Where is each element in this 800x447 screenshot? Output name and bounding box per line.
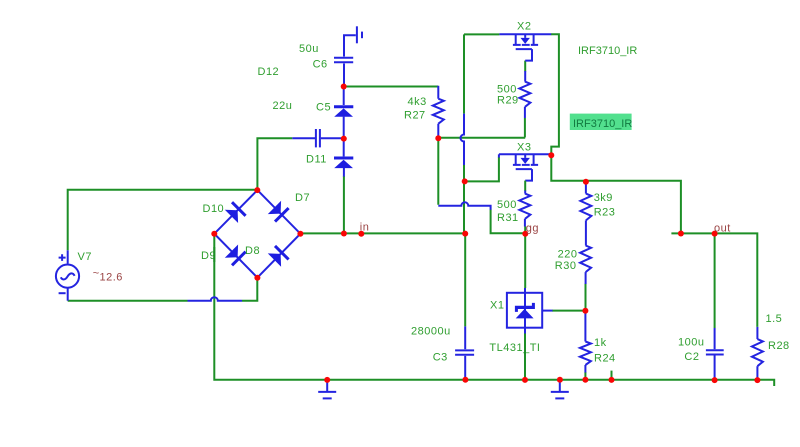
svg-text:D10: D10: [203, 203, 225, 215]
svg-text:12.6: 12.6: [100, 272, 123, 284]
svg-text:3k9: 3k9: [594, 192, 613, 204]
svg-text:D8: D8: [245, 245, 260, 257]
svg-text:X3: X3: [517, 142, 531, 154]
svg-text:out: out: [714, 222, 731, 234]
svg-text:4k3: 4k3: [408, 96, 427, 108]
svg-text:500: 500: [497, 199, 517, 211]
svg-text:R31: R31: [497, 212, 519, 224]
svg-text:C6: C6: [313, 59, 328, 71]
svg-text:C3: C3: [433, 352, 448, 364]
svg-text:D7: D7: [295, 192, 310, 204]
svg-text:D11: D11: [306, 154, 327, 166]
svg-text:1k: 1k: [594, 337, 607, 349]
svg-text:R30: R30: [555, 260, 577, 272]
svg-text:D12: D12: [258, 66, 280, 78]
svg-text:X2: X2: [517, 21, 531, 33]
svg-text:C2: C2: [684, 351, 699, 363]
svg-text:IRF3710_IR: IRF3710_IR: [573, 118, 632, 130]
svg-text:R28: R28: [768, 340, 790, 352]
svg-text:R24: R24: [594, 352, 616, 364]
svg-text:500: 500: [497, 83, 517, 95]
svg-text:X1: X1: [490, 300, 504, 312]
svg-text:1.5: 1.5: [766, 313, 783, 325]
svg-text:22u: 22u: [273, 100, 293, 112]
svg-text:R27: R27: [404, 110, 426, 122]
svg-text:R29: R29: [497, 95, 519, 107]
svg-text:IRF3710_IR: IRF3710_IR: [578, 45, 637, 57]
svg-text:C5: C5: [316, 102, 331, 114]
svg-text:gg: gg: [526, 222, 539, 234]
svg-text:V7: V7: [78, 251, 92, 263]
svg-text:TL431_TI: TL431_TI: [489, 342, 540, 354]
svg-text:in: in: [360, 222, 370, 234]
svg-text:220: 220: [558, 249, 578, 261]
svg-text:28000u: 28000u: [411, 326, 451, 338]
svg-text:R23: R23: [594, 207, 616, 219]
svg-text:100u: 100u: [678, 336, 704, 348]
svg-text:50u: 50u: [299, 43, 319, 55]
